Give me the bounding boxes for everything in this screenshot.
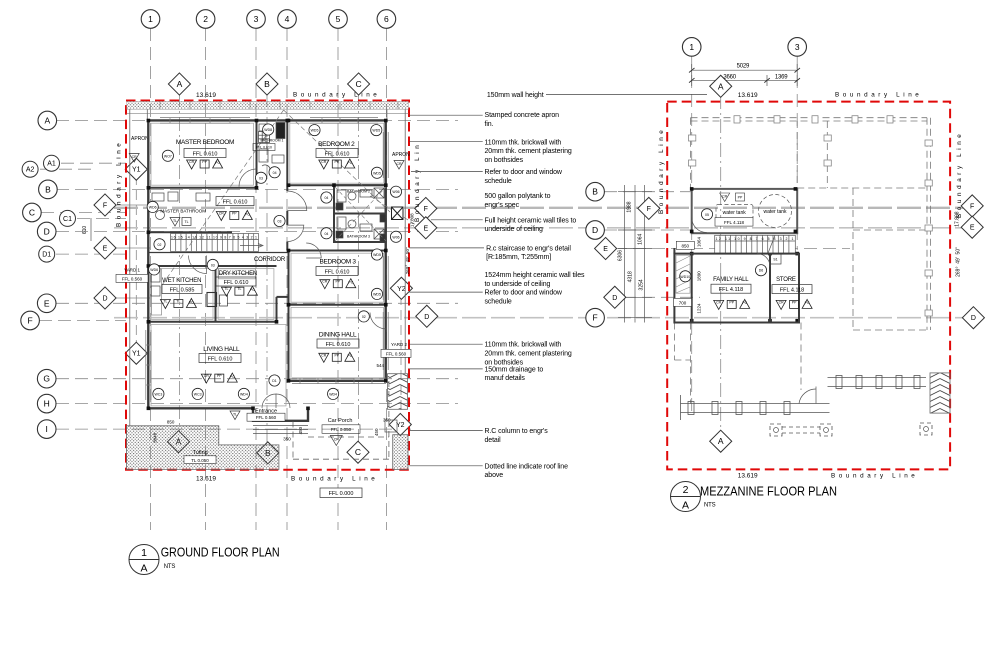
svg-text:MEZZANINE FLOOR PLAN: MEZZANINE FLOOR PLAN [700, 483, 837, 498]
grid row E2 mezz [614, 248, 850, 250]
trio master bedroom [187, 159, 223, 169]
herringbone drain left plan [388, 374, 408, 410]
svg-text:WD5: WD5 [373, 253, 381, 257]
family hall block [674, 248, 799, 323]
svg-text:FFL 4.118: FFL 4.118 [724, 220, 745, 225]
svg-text:02: 02 [158, 243, 162, 247]
svg-text:TL: TL [184, 220, 188, 224]
svg-text:WC3: WC3 [155, 392, 163, 396]
apron CR triangle left [129, 154, 139, 163]
grid row D [56, 231, 458, 233]
svg-text:TL: TL [176, 300, 180, 304]
svg-text:D6: D6 [759, 269, 764, 273]
apron band ticks [160, 102, 398, 110]
svg-text:B: B [592, 187, 598, 197]
door dining-yard2 [370, 313, 387, 330]
inner wall faces [151, 123, 384, 406]
svg-text:E: E [603, 246, 608, 253]
bathroom 2/3 divider [334, 213, 386, 215]
store door arc [757, 254, 770, 267]
svg-text:R.c staircase to engr's detail: R.c staircase to engr's detail [486, 245, 571, 252]
entrance walls [253, 408, 308, 421]
wall left [147, 119, 149, 409]
svg-text:PP: PP [217, 374, 222, 378]
svg-text:D: D [424, 314, 429, 321]
svg-text:Boundary Line: Boundary Line [835, 92, 922, 99]
corridor notch horizontal [277, 296, 289, 298]
wall bottom living [147, 407, 253, 409]
svg-text:D: D [102, 296, 107, 303]
svg-text:W06: W06 [392, 190, 399, 194]
svg-text:PP: PP [792, 300, 797, 304]
grid row D long [114, 317, 963, 319]
svg-text:PP: PP [335, 280, 340, 284]
diamond D mezz left [604, 286, 626, 308]
svg-text:1: 1 [148, 14, 153, 24]
svg-text:BATHROOM 2: BATHROOM 2 [347, 189, 370, 193]
bubble connector A2 [40, 168, 95, 170]
master bathroom fixtures [152, 192, 210, 220]
svg-text:GROUND FLOOR PLAN: GROUND FLOOR PLAN [161, 544, 280, 559]
svg-text:03: 03 [259, 176, 263, 180]
Y1 line [135, 160, 137, 362]
svg-text:PC: PC [230, 375, 235, 379]
bubble A2 [22, 161, 38, 177]
long shared grid rows to right plan [114, 192, 963, 318]
svg-text:FFL 0.610: FFL 0.610 [223, 200, 248, 206]
grid row F long [114, 207, 963, 209]
bubble D1 [39, 246, 55, 262]
Y1 diamond bottom [125, 342, 147, 364]
bubble H [37, 394, 56, 413]
annex hatch [676, 255, 690, 293]
svg-text:5: 5 [336, 14, 341, 24]
diamond A top right [710, 75, 732, 97]
svg-text:PP: PP [729, 300, 734, 304]
svg-text:PC: PC [189, 300, 194, 304]
svg-text:PC: PC [245, 212, 250, 216]
svg-text:PC: PC [742, 301, 747, 305]
svg-text:F: F [592, 313, 597, 323]
bubble 1 right [682, 38, 701, 57]
svg-text:APRON: APRON [392, 152, 410, 158]
svg-text:FFL 0.610: FFL 0.610 [256, 146, 272, 150]
svg-text:A: A [44, 116, 50, 126]
column squares at wall junctions [147, 119, 388, 410]
svg-text:A: A [718, 81, 724, 91]
interior walls [148, 120, 387, 380]
svg-text:C: C [29, 208, 35, 218]
wall right [385, 119, 387, 382]
svg-text:DINING HALL: DINING HALL [319, 332, 357, 339]
svg-text:F: F [27, 316, 32, 326]
svg-text:TL 0.050: TL 0.050 [191, 458, 209, 463]
circle D6 [755, 265, 766, 276]
svg-text:FFL 0.610: FFL 0.610 [193, 152, 218, 158]
svg-text:F: F [647, 206, 651, 213]
svg-text:04: 04 [273, 171, 277, 175]
svg-text:FFL 0.610: FFL 0.610 [326, 342, 351, 348]
bathroom1 fixtures [259, 123, 286, 170]
grid column 1 right [691, 56, 693, 415]
svg-text:schedule: schedule [485, 178, 512, 185]
svg-text:CR: CR [322, 280, 328, 284]
wet kitchen fixtures [151, 270, 160, 296]
svg-text:PP: PP [738, 196, 743, 200]
dining bottom window wall [289, 380, 387, 382]
svg-text:16 15 14 13 12 11 10 9 8 7 6 5: 16 15 14 13 12 11 10 9 8 7 6 5 4 3 2 1 [171, 236, 257, 240]
annotation leader lines [409, 95, 707, 466]
svg-text:Boundary Line: Boundary Line [116, 140, 123, 227]
svg-text:F: F [103, 203, 107, 210]
diamond D left [94, 287, 116, 309]
window lines left wall [146, 330, 151, 400]
section line C [358, 93, 360, 443]
section line A [178, 93, 180, 433]
svg-text:on bothsides: on bothsides [485, 157, 524, 164]
svg-text:1524mm height ceramic wall til: 1524mm height ceramic wall tiles [485, 272, 585, 279]
diamond E right of left plan [415, 217, 437, 239]
svg-text:Boundary Line: Boundary Line [658, 127, 665, 214]
bubble F [21, 311, 40, 330]
svg-text:TL: TL [224, 287, 228, 291]
svg-text:B: B [264, 79, 270, 89]
grid row C [41, 212, 126, 214]
svg-text:PC: PC [250, 288, 255, 292]
TL box master bathroom [170, 217, 191, 226]
svg-text:STORE: STORE [776, 277, 796, 283]
svg-text:WD8: WD8 [264, 128, 272, 132]
svg-text:PP: PP [202, 160, 207, 164]
wall bathroom1 right / bedroom2 left [286, 120, 288, 191]
stair left plan [171, 234, 264, 252]
bubble C [23, 203, 42, 222]
Y2 diamond top [390, 277, 412, 299]
bubble D [37, 222, 56, 241]
svg-text:FFL 0.560: FFL 0.560 [122, 276, 143, 281]
roof edge tick marks [689, 116, 933, 316]
svg-text:Boundary Line: Boundary Line [293, 92, 380, 99]
svg-text:FFL 0.560: FFL 0.560 [386, 351, 407, 356]
apron top dotted band [127, 102, 409, 110]
svg-text:engr's spec: engr's spec [485, 202, 520, 209]
door vestibule lower [287, 225, 304, 242]
diamond A bottom [167, 431, 189, 453]
diamond F left [94, 194, 116, 216]
svg-text:E: E [44, 298, 50, 308]
mezz corner squares [690, 187, 799, 322]
svg-text:3: 3 [254, 14, 259, 24]
bubble 1 [141, 10, 160, 29]
Y2 line [400, 280, 402, 432]
svg-text:Boundary Line: Boundary Line [831, 473, 918, 480]
svg-text:13.619: 13.619 [738, 92, 758, 99]
diamond F right of left plan [415, 197, 437, 219]
grid row D1 [56, 253, 126, 255]
wet/dry kitchen divider [215, 266, 217, 322]
FFL 0.000 box [320, 488, 362, 498]
svg-text:A1: A1 [47, 161, 56, 168]
svg-text:3048: 3048 [153, 432, 158, 443]
trio dry kitchen [221, 286, 257, 296]
svg-text:D: D [44, 227, 50, 237]
svg-text:D: D [971, 315, 976, 322]
svg-text:1064: 1064 [697, 236, 702, 247]
bathroom2/3 fixtures [335, 187, 403, 242]
herringbone drain right plan [930, 373, 950, 413]
grid row B mezz [604, 191, 692, 193]
bubble B [39, 180, 58, 199]
svg-text:on bothsides: on bothsides [485, 359, 524, 366]
svg-text:WD6: WD6 [149, 205, 157, 209]
grid row D mezz left [604, 229, 692, 231]
svg-text:fin.: fin. [485, 121, 494, 128]
svg-text:Refer to door and window: Refer to door and window [485, 290, 563, 297]
window lines dining bottom [292, 378, 386, 384]
svg-text:1224: 1224 [697, 303, 702, 314]
svg-text:WD5: WD5 [373, 171, 381, 175]
svg-text:to underside of ceiling: to underside of ceiling [485, 281, 551, 288]
trio store [776, 299, 812, 309]
wall bedroom2 bottom [287, 184, 387, 186]
corridor band lines [148, 252, 288, 254]
svg-text:04: 04 [324, 196, 328, 200]
trio living [201, 373, 237, 383]
svg-text:PP: PP [334, 160, 339, 164]
small circles left plan [147, 124, 402, 400]
ground floor title bubble [129, 545, 159, 575]
svg-text:FFL 4.118: FFL 4.118 [719, 287, 743, 293]
svg-text:[R:185mm, T:255mm]: [R:185mm, T:255mm] [486, 254, 551, 261]
svg-text:WD4: WD4 [240, 392, 248, 396]
svg-text:CR: CR [219, 212, 225, 216]
diamond D mezz right [962, 307, 984, 329]
svg-text:CR: CR [132, 155, 138, 159]
wall living/dining divider [288, 305, 290, 381]
bubble A [38, 111, 57, 130]
svg-text:13.619: 13.619 [196, 92, 216, 99]
svg-text:W06: W06 [392, 235, 399, 239]
trio bedroom 3 [320, 279, 356, 289]
svg-text:S1: S1 [773, 258, 777, 262]
svg-text:CR: CR [722, 195, 728, 199]
svg-text:BATHROOM 1: BATHROOM 1 [261, 139, 284, 143]
trio wet kitchen [160, 299, 196, 309]
svg-text:C1: C1 [63, 216, 72, 223]
svg-text:TL: TL [237, 287, 241, 291]
svg-text:A: A [682, 500, 689, 512]
master bathroom bottom wall [148, 231, 232, 233]
section line B [266, 93, 268, 444]
svg-text:1369: 1369 [775, 74, 788, 80]
TL triangle entrance [230, 411, 240, 420]
svg-text:Y1: Y1 [132, 351, 141, 358]
bubble G [37, 369, 56, 388]
svg-text:C: C [355, 447, 361, 457]
hatch right bottom block [393, 435, 408, 470]
porch columns dashed [770, 423, 932, 436]
svg-text:above: above [485, 472, 504, 479]
svg-text:700: 700 [679, 300, 687, 305]
mezzanine title bubble [671, 482, 701, 512]
grid row D2 mezz [623, 296, 700, 298]
svg-text:CR: CR [779, 300, 785, 304]
circle WD10 [680, 271, 691, 282]
svg-text:1064: 1064 [638, 234, 644, 245]
svg-text:Car Porch: Car Porch [328, 418, 353, 424]
grid row E long [114, 227, 963, 229]
svg-text:WET KITCHEN: WET KITCHEN [162, 278, 201, 284]
svg-text:F: F [970, 203, 974, 210]
bubble A1 [44, 155, 60, 171]
svg-text:850: 850 [682, 243, 690, 248]
bubble 3 right [788, 38, 807, 57]
row D left diamond line [114, 297, 150, 299]
grid row H [56, 403, 458, 405]
svg-text:water tank: water tank [723, 210, 747, 216]
wall bedroom3 bottom / dining top [289, 304, 387, 306]
svg-text:110mm thk. brickwall with: 110mm thk. brickwall with [485, 342, 562, 349]
svg-text:underside of ceiling: underside of ceiling [485, 226, 544, 233]
diamond E mezz left [595, 237, 617, 259]
diamond C top [348, 73, 370, 95]
svg-text:269° 49' 50": 269° 49' 50" [956, 247, 962, 277]
row F left diamond line [114, 204, 150, 206]
svg-text:02: 02 [362, 315, 366, 319]
svg-text:6306: 6306 [618, 250, 624, 261]
bubble E [37, 294, 56, 313]
svg-text:350: 350 [383, 417, 391, 422]
diamond C bottom [347, 441, 369, 463]
diamond F mezz right [961, 195, 983, 217]
diamond E mezz right [961, 216, 983, 238]
grid column line 4 [286, 28, 288, 530]
svg-text:850: 850 [167, 420, 175, 425]
svg-text:Tufing: Tufing [193, 450, 208, 456]
svg-text:13.619: 13.619 [196, 476, 216, 483]
svg-text:MASTER BEDROOM: MASTER BEDROOM [176, 139, 234, 146]
svg-text:3254: 3254 [639, 279, 645, 290]
svg-text:CR: CR [321, 160, 327, 164]
svg-text:450: 450 [298, 426, 303, 434]
svg-text:4318: 4318 [628, 271, 634, 282]
svg-text:20mm thk. cement plastering: 20mm thk. cement plastering [485, 351, 572, 358]
porch door arc [799, 389, 816, 404]
bubble 2 [196, 10, 215, 29]
svg-text:WC3: WC3 [194, 392, 202, 396]
dim boxes mezz [676, 241, 694, 249]
entrance steps [253, 420, 397, 434]
bubble C1 [60, 210, 76, 226]
svg-text:G: G [43, 374, 50, 384]
kitchens top wall [148, 265, 276, 267]
svg-text:350: 350 [283, 437, 291, 442]
bubble F mezz [586, 308, 605, 327]
wall top [147, 119, 387, 121]
wall bedroom3 left [288, 251, 290, 306]
svg-text:CR: CR [321, 353, 327, 357]
svg-text:500 gallon polytank to: 500 gallon polytank to [485, 193, 551, 200]
svg-text:269° 49' 50": 269° 49' 50" [405, 247, 410, 274]
svg-text:F: F [424, 206, 428, 213]
entrance double door [262, 394, 276, 408]
svg-text:FFL 0.610: FFL 0.610 [224, 280, 249, 286]
svg-text:1890: 1890 [697, 271, 702, 282]
porch beam right [828, 376, 927, 389]
FFL 4.118 water tank [715, 218, 753, 227]
svg-text:CR: CR [716, 300, 722, 304]
svg-text:TL: TL [173, 219, 177, 223]
svg-text:WD6: WD6 [150, 268, 158, 272]
boundary rect right plan [667, 102, 950, 470]
trio family hall [714, 299, 750, 309]
bubble 4 [278, 10, 297, 29]
svg-text:FFL 0.050: FFL 0.050 [331, 427, 352, 432]
door dry kitchen [189, 256, 207, 274]
svg-text:WD10: WD10 [680, 275, 690, 279]
grid column line 1 [150, 28, 152, 530]
water tank 1 [716, 205, 753, 220]
svg-text:schedule: schedule [485, 299, 512, 306]
grid row I [56, 428, 414, 430]
porch beam lower [681, 395, 830, 420]
svg-text:4: 4 [285, 14, 290, 24]
svg-text:FFL 0.610: FFL 0.610 [208, 357, 233, 363]
bubble 6 [377, 10, 396, 29]
bubble D mezz [586, 221, 605, 240]
svg-text:PC: PC [348, 281, 353, 285]
svg-text:Full height ceramic wall tiles: Full height ceramic wall tiles to [485, 217, 577, 224]
svg-text:D: D [592, 225, 598, 235]
svg-text:1: 1 [141, 547, 147, 559]
trio dining [319, 352, 355, 362]
trio bedroom 2 [319, 159, 355, 169]
boundary rect left plan [126, 101, 409, 470]
top dimension lines right plan [689, 64, 800, 86]
trio master bathroom [216, 211, 252, 221]
svg-text:PC: PC [215, 161, 220, 165]
svg-text:E: E [103, 246, 108, 253]
svg-text:PP: PP [232, 212, 237, 216]
svg-text:Y1: Y1 [132, 167, 141, 174]
bathroom block 2/3 [334, 185, 386, 242]
svg-text:Dotted line indicate roof line: Dotted line indicate roof line [485, 463, 569, 470]
grid row E [56, 302, 458, 304]
CR PP boxes water tank [720, 193, 745, 202]
svg-text:BEDROOM 3: BEDROOM 3 [319, 259, 356, 266]
svg-text:FAMILY HALL: FAMILY HALL [713, 277, 749, 283]
svg-text:CR: CR [204, 374, 210, 378]
section line A right [720, 95, 722, 432]
svg-text:BATHROOM 3: BATHROOM 3 [347, 234, 370, 238]
svg-text:PP: PP [334, 353, 339, 357]
svg-text:YARD 1: YARD 1 [124, 268, 140, 273]
wall master bedroom bottom [148, 187, 256, 189]
apron inner line [127, 113, 409, 115]
Y1 diamond top [125, 158, 147, 180]
exterior walls [147, 119, 387, 421]
svg-text:BEDROOM 2: BEDROOM 2 [318, 141, 355, 148]
grid row B [56, 188, 458, 190]
diamond A top [168, 73, 190, 95]
kitchens bottom wall [148, 321, 276, 323]
apron CR triangle right [394, 161, 404, 170]
Y2 diamond bottom [389, 413, 411, 435]
svg-text:CORRIDOR: CORRIDOR [254, 257, 286, 263]
svg-text:610: 610 [82, 226, 88, 235]
diamond B bottom [257, 442, 279, 464]
svg-text:FFL 0.610: FFL 0.610 [325, 270, 350, 276]
